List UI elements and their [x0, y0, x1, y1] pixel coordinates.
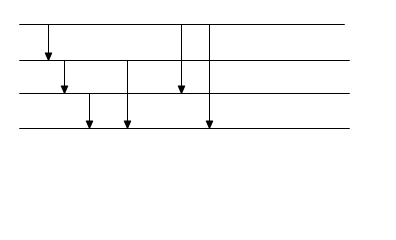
horizontal line L1 (top)	[19, 24, 345, 26]
arrow A4 from L2 to L4	[124, 61, 130, 129]
arrow A6 from L1 to L4	[206, 25, 212, 129]
arrow A2 from L2 to L3	[61, 61, 67, 94]
horizontal line L4 (bottom)	[19, 128, 350, 130]
arrow A1 from L1 to L2	[45, 25, 51, 61]
horizontal line L2	[19, 60, 350, 62]
arrow A5 from L1 to L3	[178, 25, 184, 94]
arrow A3 from L3 to L4	[86, 94, 92, 129]
horizontal line L3	[19, 93, 350, 95]
